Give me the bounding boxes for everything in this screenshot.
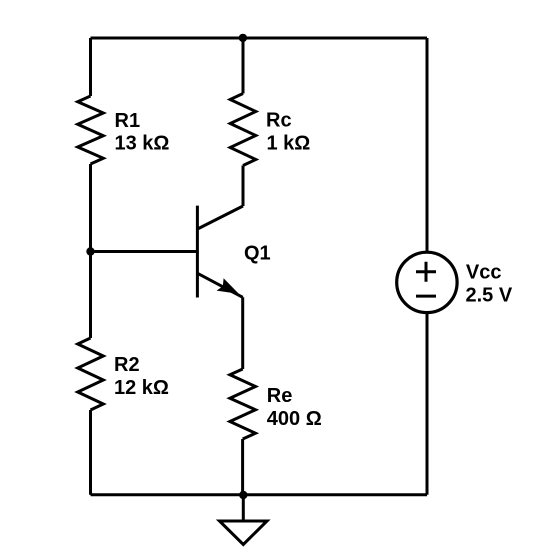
wire emitter to Re xyxy=(241,297,244,369)
wire left rail middle xyxy=(89,164,92,338)
wire Rc to collector xyxy=(242,166,245,207)
svg-text:2.5 V: 2.5 V xyxy=(466,285,513,307)
wire top rail xyxy=(91,37,428,40)
resistor Rc xyxy=(230,94,256,166)
wire ground lead xyxy=(242,495,245,521)
voltage source Vcc circle xyxy=(397,252,457,312)
resistor Re xyxy=(230,369,256,439)
wire left rail upper xyxy=(89,38,92,96)
wire collector drop xyxy=(242,38,245,94)
transistor Q1 collector lead xyxy=(198,206,244,229)
resistor R2 xyxy=(78,338,104,410)
svg-text:Q1: Q1 xyxy=(244,242,271,264)
svg-text:13 kΩ: 13 kΩ xyxy=(115,133,170,155)
svg-text:Vcc: Vcc xyxy=(466,261,502,283)
svg-text:R2: R2 xyxy=(114,354,140,376)
svg-text:Re: Re xyxy=(267,385,293,407)
node junction dot top xyxy=(239,34,247,42)
node junction dot base xyxy=(86,247,94,255)
node junction dot bottom xyxy=(239,491,247,499)
svg-text:400 Ω: 400 Ω xyxy=(267,408,322,430)
wire Re to bottom rail xyxy=(241,439,244,495)
wire bottom rail xyxy=(91,493,428,496)
svg-text:1 kΩ: 1 kΩ xyxy=(267,133,311,155)
transistor Q1 base bar xyxy=(196,206,199,298)
wire left rail lower xyxy=(89,410,92,495)
transistor Q1 emitter arrow xyxy=(217,278,239,294)
wire base xyxy=(91,250,198,253)
voltage source minus sign xyxy=(416,295,436,298)
wire right rail upper xyxy=(426,38,429,252)
svg-text:12 kΩ: 12 kΩ xyxy=(114,377,169,399)
svg-text:Rc: Rc xyxy=(266,110,292,132)
svg-text:R1: R1 xyxy=(115,110,141,132)
transistor Q1 emitter lead xyxy=(198,273,243,297)
resistor R1 xyxy=(78,96,104,164)
voltage source plus sign xyxy=(416,262,436,282)
ground symbol xyxy=(220,521,268,545)
wire right rail lower xyxy=(426,313,429,495)
